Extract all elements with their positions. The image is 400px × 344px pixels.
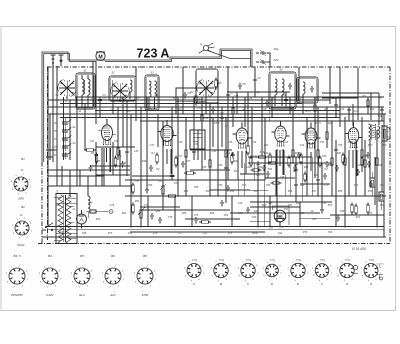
- svg-text:C83: C83: [252, 216, 257, 219]
- svg-text:C22: C22: [370, 108, 375, 111]
- chassis boundary (dash-dot): [38, 67, 390, 244]
- svg-text:C59: C59: [218, 184, 223, 187]
- svg-text:B4: B4: [48, 254, 52, 258]
- resistor R19: [266, 162, 278, 165]
- resistor R35: [304, 172, 307, 183]
- svg-text:C88: C88: [82, 232, 87, 235]
- svg-text:C55: C55: [338, 144, 343, 147]
- resistor R60: [351, 203, 354, 215]
- coil shield box 3: [145, 72, 159, 111]
- svg-text:R44: R44: [290, 162, 295, 165]
- tube socket E (top view): [288, 259, 310, 282]
- svg-text:C85: C85: [312, 218, 317, 221]
- tube socket H (top view): [361, 259, 384, 282]
- svg-text:C45: C45: [280, 176, 285, 179]
- svg-text:R9,5: R9,5: [315, 122, 321, 125]
- svg-text:R45: R45: [328, 164, 333, 167]
- svg-text:C18: C18: [314, 97, 319, 100]
- svg-text:AZ1: AZ1: [109, 293, 116, 297]
- tube socket B (top view): [211, 259, 233, 282]
- capacitor C60: [356, 169, 360, 176]
- svg-text:EL3: EL3: [79, 293, 85, 297]
- detector block: [190, 130, 205, 160]
- potentiometer P1: [160, 184, 166, 197]
- junction dots (bus band): [63, 99, 383, 118]
- svg-text:C13: C13: [234, 95, 239, 98]
- svg-text:C92: C92: [278, 232, 283, 235]
- tube socket B5 (bottom view): [71, 265, 94, 288]
- svg-text:K02: K02: [274, 47, 279, 51]
- mains switch S1: [42, 223, 53, 231]
- svg-text:10(9): 10(9): [191, 259, 196, 261]
- svg-text:B: B: [220, 282, 222, 286]
- svg-text:C16: C16: [282, 94, 287, 97]
- vacuum tube V1 (EK2 mixer): [98, 119, 116, 145]
- tuning indicator (magic eye): [269, 206, 289, 230]
- svg-text:B2: B2: [21, 205, 25, 209]
- wire: [256, 53, 270, 67]
- svg-text:C56: C56: [148, 184, 153, 187]
- svg-text:R47: R47: [368, 144, 373, 147]
- coil shield box 1: [76, 70, 95, 110]
- svg-text:R34: R34: [122, 162, 127, 165]
- svg-text:R58: R58: [338, 190, 343, 193]
- svg-text:R43: R43: [258, 166, 263, 169]
- resistor R41: [199, 221, 211, 224]
- oscillator shield box 4: [269, 69, 296, 110]
- label G: [346, 282, 349, 286]
- capacitor C40: [294, 167, 298, 174]
- svg-text:9784: 9784: [142, 293, 149, 297]
- capacitor C9: [253, 77, 261, 84]
- svg-text:C39: C39: [194, 143, 199, 146]
- label KA81: [46, 293, 54, 297]
- svg-text:C89: C89: [128, 232, 133, 235]
- svg-text:10(9): 10(9): [269, 259, 274, 261]
- capacitor C47: [316, 177, 320, 184]
- resistor R5: [84, 149, 96, 152]
- svg-text:723 A: 723 A: [137, 47, 170, 61]
- svg-text:6(3)2: 6(3)2: [17, 243, 24, 247]
- band switch contacts: [62, 118, 72, 160]
- resistor R61: [367, 203, 370, 215]
- svg-text:C14: C14: [248, 97, 253, 100]
- capacitor C33: [231, 152, 235, 159]
- trimmer capacitor K03: [260, 58, 279, 65]
- resistor R25: [326, 130, 329, 142]
- tube socket B4 (bottom view): [39, 265, 62, 288]
- svg-text:R67: R67: [238, 212, 243, 215]
- svg-text:R64: R64: [156, 210, 161, 213]
- capacitor C10: [145, 187, 149, 194]
- capacitor C46: [266, 171, 270, 178]
- tuning capacitor C2: [111, 83, 130, 103]
- capacitor C23: [220, 115, 224, 122]
- svg-text:R48: R48: [382, 144, 387, 147]
- capacitor C13: [94, 152, 98, 159]
- svg-text:C73: C73: [354, 184, 359, 187]
- label B2: [21, 205, 25, 209]
- svg-text:10(9): 10(9): [295, 259, 300, 261]
- svg-text:R73: R73: [108, 232, 113, 235]
- coupling capacitor C6: [183, 92, 191, 99]
- svg-text:R5,5: R5,5: [305, 110, 311, 113]
- volume potentiometer: [138, 207, 146, 221]
- vacuum tube V6 (EL3): [345, 122, 362, 148]
- capacitor C41: [294, 182, 298, 189]
- svg-text:C66: C66: [378, 164, 383, 167]
- padder capacitor C7: [226, 92, 234, 99]
- svg-text:R52: R52: [184, 190, 189, 193]
- svg-text:A: A: [192, 282, 195, 286]
- svg-text:C81: C81: [224, 214, 229, 217]
- svg-text:R54: R54: [230, 190, 235, 193]
- label D: [271, 282, 274, 286]
- resistor R23: [317, 148, 320, 160]
- shield box 5: [297, 77, 318, 103]
- vacuum tube V3 (EBF2 det): [233, 122, 252, 148]
- svg-text:C12: C12: [197, 107, 202, 110]
- svg-text:R31: R31: [337, 152, 342, 155]
- svg-text:R63: R63: [122, 212, 127, 215]
- label B: [220, 282, 222, 286]
- svg-text:C79: C79: [194, 214, 199, 217]
- label B8: [143, 254, 147, 258]
- svg-text:C46: C46: [252, 141, 257, 144]
- resistor R28: [364, 158, 367, 170]
- svg-text:R65: R65: [182, 212, 187, 215]
- resistor R80: [355, 204, 358, 216]
- svg-text:10(9): 10(9): [319, 259, 324, 261]
- tuning capacitor C4: [197, 80, 216, 100]
- svg-text:R70: R70: [328, 204, 333, 207]
- svg-text:C70: C70: [324, 184, 329, 187]
- electrolytic capacitor C91: [379, 186, 384, 210]
- svg-text:C37: C37: [150, 144, 155, 147]
- svg-text:B8: B8: [143, 254, 147, 258]
- label B6: [111, 254, 115, 258]
- label H: [370, 282, 373, 286]
- label B4, 5: [13, 254, 20, 258]
- svg-text:ZP6/K65: ZP6/K65: [10, 293, 23, 297]
- capacitor C19: [226, 185, 230, 192]
- resistor R11: [201, 113, 204, 124]
- label B1: [21, 157, 25, 161]
- svg-text:C20: C20: [340, 108, 345, 111]
- svg-text:R45: R45: [304, 166, 309, 169]
- resistor R8: [132, 183, 135, 195]
- tube socket C (top view): [238, 259, 260, 282]
- svg-text:B6: B6: [111, 254, 115, 258]
- tube socket B6 (bottom view): [102, 265, 125, 288]
- svg-text:R57: R57: [312, 190, 317, 193]
- resistor R13: [209, 158, 212, 170]
- label B5: [80, 254, 84, 258]
- svg-text:2M: 2M: [267, 202, 271, 205]
- svg-text:C57: C57: [174, 182, 179, 185]
- svg-text:R56: R56: [288, 190, 293, 193]
- capacitor C54: [334, 147, 338, 154]
- resistor R17: [232, 106, 235, 117]
- electrolytic capacitor C90: [370, 172, 375, 196]
- resistor R29: [376, 156, 379, 168]
- resistor R2: [215, 78, 223, 90]
- resistor R9: [132, 203, 135, 215]
- capacitor C30: [380, 107, 384, 114]
- svg-text:C53: C53: [320, 141, 325, 144]
- svg-text:B5: B5: [80, 254, 84, 258]
- resistor R15: [225, 148, 228, 160]
- svg-text:R39: R39: [218, 164, 223, 167]
- resistor R6: [117, 146, 120, 158]
- svg-text:C25 5: C25 5: [213, 122, 220, 125]
- svg-text:R46: R46: [348, 141, 353, 144]
- tube socket B4, 5 (bottom view): [6, 265, 29, 288]
- svg-text:C87: C87: [368, 212, 373, 215]
- svg-text:C15: C15: [262, 108, 267, 111]
- svg-text:R11 75: R11 75: [204, 117, 212, 120]
- svg-text:R44: R44: [268, 168, 273, 171]
- svg-text:C67: C67: [242, 184, 247, 187]
- svg-text:F: F: [321, 282, 323, 286]
- label EL3: [79, 293, 85, 297]
- svg-text:C32: C32: [114, 140, 119, 143]
- capacitor C50: [323, 173, 327, 180]
- svg-text:R11: R11: [328, 122, 333, 125]
- svg-text:R21: R21: [264, 152, 269, 155]
- resistor R33: [251, 169, 262, 172]
- AVC line (dashed): [268, 67, 270, 121]
- antenna lead wire: [208, 51, 251, 59]
- svg-text:C38: C38: [178, 141, 183, 144]
- resistor R30: [361, 148, 364, 160]
- resistor R16: [247, 144, 250, 156]
- svg-text:R38: R38: [202, 166, 207, 169]
- svg-text:R43: R43: [234, 170, 239, 173]
- capacitor C14: [125, 149, 129, 156]
- capacitor C22: [211, 107, 215, 114]
- resistor R10: [185, 148, 188, 160]
- svg-text:K03: K03: [274, 58, 279, 62]
- svg-text:10(9): 10(9): [245, 259, 250, 261]
- svg-text:R46: R46: [254, 210, 259, 213]
- labels (lower right): [234, 166, 329, 213]
- bias resistors and bypass capacitors: [88, 152, 371, 171]
- tube socket A (top view): [184, 259, 205, 282]
- svg-text:C75: C75: [88, 202, 93, 205]
- svg-text:C44: C44: [246, 166, 251, 169]
- power transformer T1: [54, 190, 76, 244]
- svg-text:C77: C77: [144, 204, 149, 207]
- capacitor C16: [170, 173, 174, 180]
- rectifier tube: [77, 210, 87, 229]
- svg-text:R14: R14: [226, 152, 231, 155]
- svg-text:R76: R76: [303, 231, 308, 234]
- svg-text:Cay/Om: Cay/Om: [376, 264, 384, 266]
- svg-text:R66: R66: [210, 212, 215, 215]
- resistor R40: [166, 195, 178, 198]
- svg-text:C76: C76: [110, 204, 115, 207]
- svg-text:R 19 400: R 19 400: [352, 247, 366, 251]
- vacuum tube V5 (EBL1 output): [302, 122, 321, 148]
- svg-text:C91: C91: [203, 232, 208, 235]
- svg-text:R75: R75: [228, 232, 233, 235]
- wire group (mid lower): [90, 142, 300, 227]
- label E: [297, 282, 300, 286]
- svg-text:R69: R69: [300, 212, 305, 215]
- capacitor C64: [366, 152, 370, 159]
- oscillator box: [196, 69, 218, 103]
- svg-text:C84: C84: [288, 204, 293, 207]
- drawing number R 19 400: [352, 247, 366, 251]
- wire risers (vertical wires): [48, 61, 384, 237]
- tone capacitors: [158, 217, 198, 224]
- svg-text:A: A: [200, 42, 202, 46]
- oscillator frame: [176, 88, 206, 114]
- svg-text:B4, 5: B4, 5: [13, 254, 20, 258]
- svg-text:C93: C93: [328, 231, 333, 234]
- label AZ1: [109, 293, 116, 297]
- capacitor C72: [220, 200, 224, 207]
- svg-text:DA: DA: [269, 226, 273, 230]
- svg-text:C31: C31: [90, 140, 95, 143]
- svg-text:C68: C68: [266, 184, 271, 187]
- tube socket G (top view): [337, 259, 359, 282]
- svg-text:C90: C90: [378, 115, 383, 118]
- svg-text:5000: 5000: [252, 232, 258, 235]
- wire group (lower right extra): [238, 157, 330, 227]
- svg-text:C47: C47: [264, 144, 269, 147]
- svg-text:R72: R72: [380, 204, 385, 207]
- svg-text:R51: R51: [135, 200, 140, 203]
- svg-text:C43: C43: [212, 150, 217, 153]
- svg-text:R62: R62: [96, 218, 101, 221]
- capacitor C20: [150, 213, 154, 220]
- capacitor C8: [238, 83, 246, 90]
- svg-text:C74: C74: [380, 184, 385, 187]
- output transformer T2: [369, 124, 380, 140]
- antenna terminal: [51, 55, 56, 66]
- antenna A: [199, 42, 215, 53]
- svg-text:C21: C21: [354, 110, 359, 113]
- svg-text:10(9): 10(9): [218, 259, 223, 261]
- capacitor C36: [260, 149, 264, 156]
- electrolytic C80: [320, 207, 324, 214]
- wire group (right lower): [230, 120, 384, 227]
- svg-text:C58: C58: [194, 186, 199, 189]
- svg-text:C48: C48: [284, 141, 289, 144]
- svg-text:C45: C45: [228, 141, 233, 144]
- svg-text:C69: C69: [300, 184, 305, 187]
- capacitor C63: [369, 181, 373, 188]
- component value labels: [54, 91, 387, 235]
- svg-text:C17: C17: [298, 97, 303, 100]
- tube socket F (top view): [312, 259, 333, 281]
- capacitor C71: [246, 207, 250, 214]
- label C: [247, 282, 250, 286]
- svg-text:R71: R71: [356, 216, 361, 219]
- svg-text:C78: C78: [168, 216, 173, 219]
- coil shield box 2: [109, 72, 136, 102]
- dial lamp M: [96, 51, 105, 60]
- cathode return wires: [102, 148, 357, 196]
- wire group (left mid): [47, 166, 130, 196]
- svg-text:R74: R74: [153, 232, 158, 235]
- capacitor C26: [284, 97, 288, 104]
- label ZP6/K65: [10, 293, 23, 297]
- label ZP6: [17, 197, 24, 201]
- resistor R27: [344, 156, 347, 168]
- loudspeaker: [382, 126, 390, 141]
- label A: [192, 282, 195, 286]
- svg-text:R59: R59: [368, 190, 373, 193]
- svg-text:220V: 220V: [58, 231, 65, 234]
- svg-text:R53: R53: [206, 190, 211, 193]
- svg-text:B1: B1: [21, 157, 25, 161]
- svg-text:ZP6: ZP6: [17, 197, 24, 201]
- svg-text:C48: C48: [314, 174, 319, 177]
- label 6C5: [17, 243, 24, 247]
- resistor R20: [314, 103, 317, 114]
- resistor R18: [256, 156, 268, 159]
- capacitor C44: [297, 152, 301, 159]
- svg-text:KA81: KA81: [46, 293, 54, 297]
- svg-text:R42: R42: [234, 160, 239, 163]
- resistor R34: [271, 182, 282, 185]
- svg-text:1 4: 1 4: [279, 227, 283, 230]
- resistor R22: [292, 148, 295, 160]
- label 9784: [142, 293, 149, 297]
- resistor R32: [367, 98, 370, 109]
- ground bus wire: [48, 227, 384, 230]
- pilot lamp wiring: [100, 210, 113, 214]
- resistor R1: [195, 94, 203, 106]
- tube socket D (top view): [263, 259, 283, 281]
- coupling capacitor C5: [98, 97, 106, 104]
- svg-text:C31: C31: [253, 155, 258, 158]
- wire group (left switch risers): [46, 113, 58, 162]
- svg-text:C51: C51: [284, 208, 289, 211]
- svg-text:R55: R55: [254, 190, 259, 193]
- svg-text:M: M: [98, 54, 102, 60]
- resistor R24: [331, 156, 334, 168]
- svg-text:C49: C49: [238, 202, 243, 205]
- capacitor C28: [334, 102, 338, 109]
- svg-text:C86: C86: [340, 210, 345, 213]
- svg-text:R37: R37: [186, 160, 191, 163]
- svg-text:10(9): 10(9): [344, 259, 349, 261]
- svg-text:C35: C35: [134, 150, 139, 153]
- chassis outline (solid double line): [42, 49, 252, 162]
- wire bus (horizontal wires): [42, 92, 386, 237]
- tube socket B2 (bottom view): [12, 215, 33, 239]
- choke coil: [88, 192, 90, 218]
- svg-text:R68: R68: [262, 204, 267, 207]
- svg-text:C52: C52: [322, 155, 327, 158]
- fuse: [86, 210, 100, 213]
- earth terminal: [59, 55, 64, 66]
- tube socket B8 (bottom view): [134, 265, 157, 288]
- title 723 A: [137, 47, 170, 61]
- svg-text:C53: C53: [322, 202, 327, 205]
- capacitor C18: [192, 149, 196, 156]
- capacitor C27: [265, 100, 269, 107]
- svg-text:C65: C65: [358, 164, 363, 167]
- svg-text:C17: C17: [178, 155, 183, 158]
- label B4: [48, 254, 52, 258]
- transformer frame: [56, 194, 77, 244]
- svg-text:10(9): 10(9): [368, 259, 373, 261]
